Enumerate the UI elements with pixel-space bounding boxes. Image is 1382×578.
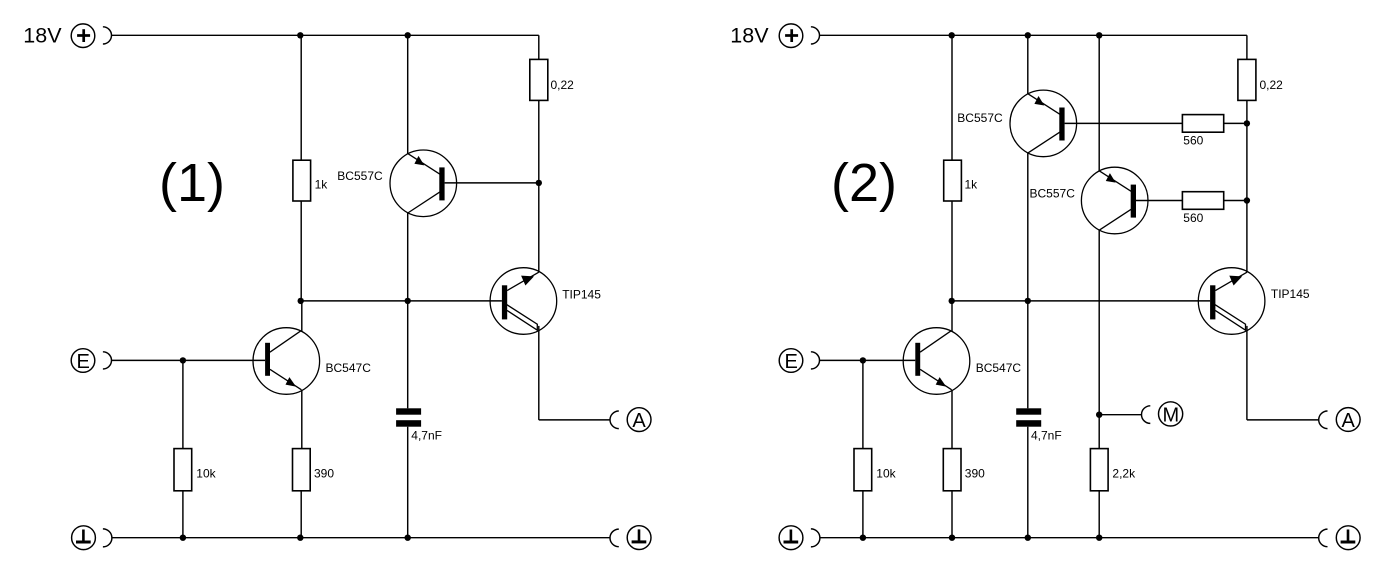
- svg-text:10k: 10k: [876, 467, 896, 481]
- wire BC557C emitter to top rail: [407, 35, 409, 153]
- svg-text:4,7nF: 4,7nF: [1031, 429, 1062, 443]
- svg-text:1k: 1k: [315, 178, 329, 192]
- value label 1k: [315, 178, 329, 192]
- resistor 390 (circuit 2): [943, 449, 961, 538]
- wire lower BC557C collector down to M node: [1098, 230, 1100, 449]
- svg-text:390: 390: [965, 467, 985, 481]
- terminal ground right (circuit 1): [610, 526, 651, 550]
- junction sense line / lower 560: [1244, 197, 1250, 203]
- value label 560 lower: [1183, 211, 1203, 225]
- wire lower BC557C emitter to top rail: [1098, 35, 1100, 171]
- terminal +18V (circuit 2): [779, 24, 819, 48]
- junction top rail / 1k (circuit 2): [949, 32, 955, 38]
- wire 560 upper to sense line: [1224, 122, 1247, 124]
- value label 2,2k: [1112, 467, 1136, 481]
- wire upper BC557C collector down: [1027, 153, 1029, 301]
- resistor 1k (circuit 1): [293, 35, 311, 301]
- junction E line / 10k (circuit 2): [860, 357, 866, 363]
- wire 0,22 to TIP145 emitter (circuit 2): [1246, 100, 1248, 272]
- junction drive rail / 1k / BC547C collector (circuit 2): [949, 298, 955, 304]
- wire top supply rail (circuit 1): [112, 35, 539, 59]
- wire 0,22 to TIP145 emitter: [538, 100, 540, 272]
- svg-text:560: 560: [1183, 211, 1203, 225]
- junction BC557C base / sense line: [536, 180, 542, 186]
- terminal A output (circuit 2): [1319, 408, 1360, 432]
- label (1): [159, 153, 225, 213]
- resistor 0,22 (circuit 2): [1238, 59, 1256, 100]
- transistor BC547C (circuit 1): [253, 328, 320, 395]
- capacitor 4,7nF (circuit 2): [1016, 301, 1041, 538]
- value label 4,7nF (circuit 1): [411, 429, 442, 443]
- svg-text:1k: 1k: [965, 178, 979, 192]
- value label 10k (circuit 2): [876, 467, 896, 481]
- resistor 0,22 (circuit 1): [530, 59, 548, 100]
- svg-text:18V: 18V: [730, 23, 769, 47]
- junction E line / 10k: [180, 357, 186, 363]
- terminal E input (circuit 1): [71, 349, 111, 373]
- svg-text:BC547C: BC547C: [976, 361, 1022, 375]
- wire drive rail (circuit 1): [301, 300, 502, 302]
- wire lower BC557C base to 560: [1136, 200, 1182, 202]
- label BC557C upper (circuit 2): [957, 111, 1003, 125]
- terminal +18V (circuit 1): [71, 24, 111, 48]
- wire upper BC557C base to 560: [1065, 122, 1183, 124]
- value label 560 upper: [1183, 134, 1203, 148]
- resistor 390 (circuit 1): [293, 449, 311, 538]
- label BC557C lower (circuit 2): [1030, 186, 1076, 200]
- svg-text:TIP145: TIP145: [1271, 287, 1310, 301]
- terminal E input (circuit 2): [779, 349, 819, 373]
- wire top supply rail (circuit 2): [820, 35, 1247, 59]
- junction M node: [1096, 412, 1102, 418]
- wire BC547C emitter to 390 (circuit 2): [951, 390, 953, 449]
- terminal A output (circuit 1): [610, 408, 651, 432]
- wire BC547C collector to drive rail: [301, 301, 303, 332]
- value label 0,22: [551, 78, 575, 92]
- resistor 1k (circuit 2): [944, 35, 962, 301]
- wire BC557C collector down to drive rail: [407, 213, 409, 301]
- junction ground / 390: [297, 535, 303, 541]
- value label 10k: [196, 467, 216, 481]
- junction sense line / upper 560: [1244, 120, 1250, 126]
- transistor BC557C lower (circuit 2): [1081, 167, 1148, 234]
- svg-text:TIP145: TIP145: [562, 287, 601, 301]
- resistor 560 lower (circuit 2): [1182, 192, 1223, 210]
- svg-text:10k: 10k: [196, 467, 216, 481]
- svg-text:BC557C: BC557C: [957, 111, 1003, 125]
- wire M node to M terminal: [1099, 414, 1141, 416]
- label BC547C (circuit 1): [326, 361, 372, 375]
- resistor 560 upper (circuit 2): [1182, 115, 1223, 133]
- junction drive rail / capacitor: [405, 298, 411, 304]
- value label 0,22 (circuit 2): [1260, 78, 1284, 92]
- svg-text:0,22: 0,22: [551, 78, 575, 92]
- transistor BC557C upper (circuit 2): [1010, 90, 1077, 157]
- value label 390 (circuit 1): [314, 467, 334, 481]
- svg-text:560: 560: [1183, 134, 1203, 148]
- svg-text:0,22: 0,22: [1260, 78, 1284, 92]
- svg-text:BC557C: BC557C: [337, 169, 383, 183]
- junction ground / 10k: [180, 535, 186, 541]
- junction ground / 390 (circuit 2): [949, 535, 955, 541]
- wire BC547C emitter to 390: [301, 390, 303, 449]
- transistor TIP145 (circuit 1): [490, 268, 557, 335]
- svg-text:M: M: [1162, 404, 1179, 426]
- label BC557C (circuit 1): [337, 169, 383, 183]
- label TIP145 (circuit 2): [1271, 287, 1310, 301]
- value label 4,7nF (circuit 2): [1031, 429, 1062, 443]
- junction top rail / 1k: [297, 32, 303, 38]
- wire TIP145 collector to A output (circuit 2): [1247, 326, 1319, 420]
- svg-text:A: A: [1342, 410, 1356, 432]
- wire BC547C collector to drive rail (circuit 2): [951, 301, 953, 332]
- svg-text:(2): (2): [831, 153, 897, 213]
- junction drive rail / capacitor (circuit 2): [1025, 298, 1031, 304]
- svg-text:18V: 18V: [23, 23, 62, 47]
- svg-text:BC547C: BC547C: [326, 361, 372, 375]
- resistor 2,2k (circuit 2): [1090, 449, 1108, 538]
- junction top rail / lower BC557C emitter: [1096, 32, 1102, 38]
- wire TIP145 collector to A output: [539, 326, 610, 420]
- label 18V supply (circuit 1): [23, 23, 62, 47]
- svg-text:(1): (1): [159, 153, 225, 213]
- junction top rail / upper BC557C emitter: [1025, 32, 1031, 38]
- label 18V supply (circuit 2): [730, 23, 769, 47]
- svg-text:E: E: [785, 351, 798, 373]
- terminal M output (circuit 2): [1142, 402, 1183, 427]
- value label 1k (circuit 2): [965, 178, 979, 192]
- junction ground / 10k (circuit 2): [860, 535, 866, 541]
- transistor TIP145 (circuit 2): [1198, 268, 1265, 335]
- svg-text:4,7nF: 4,7nF: [411, 429, 442, 443]
- resistor 10k (circuit 1): [174, 360, 192, 537]
- label BC547C (circuit 2): [976, 361, 1022, 375]
- transistor BC547C (circuit 2): [903, 328, 970, 395]
- wire E input to BC547C base: [112, 359, 266, 361]
- junction drive rail / 1k / BC547C collector: [298, 298, 304, 304]
- wire upper BC557C emitter to top rail: [1027, 35, 1029, 93]
- junction top rail / BC557C emitter: [405, 32, 411, 38]
- wire E input to BC547C base (circuit 2): [820, 359, 916, 361]
- wire ground rail (circuit 1): [112, 537, 610, 539]
- terminal ground left (circuit 1): [72, 526, 112, 550]
- resistor 10k (circuit 2): [854, 360, 872, 537]
- junction ground / 2,2k (circuit 2): [1096, 535, 1102, 541]
- junction ground / capacitor (circuit 2): [1025, 535, 1031, 541]
- svg-text:390: 390: [314, 467, 334, 481]
- wire 560 lower to sense line: [1224, 200, 1247, 202]
- label TIP145 (circuit 1): [562, 287, 601, 301]
- terminal ground left (circuit 2): [779, 526, 820, 550]
- transistor BC557C (circuit 1): [390, 150, 457, 217]
- junction ground / capacitor: [405, 535, 411, 541]
- svg-text:2,2k: 2,2k: [1112, 467, 1136, 481]
- label (2): [831, 153, 897, 213]
- value label 390 (circuit 2): [965, 467, 985, 481]
- svg-text:E: E: [77, 351, 90, 373]
- svg-text:A: A: [632, 410, 646, 432]
- terminal ground right (circuit 2): [1319, 526, 1360, 550]
- wire drive rail (circuit 2): [952, 300, 1210, 302]
- wire BC557C base to sense node: [445, 182, 539, 184]
- wire ground rail (circuit 2): [820, 537, 1319, 539]
- capacitor 4,7nF (circuit 1): [396, 301, 421, 538]
- svg-text:BC557C: BC557C: [1030, 186, 1076, 200]
